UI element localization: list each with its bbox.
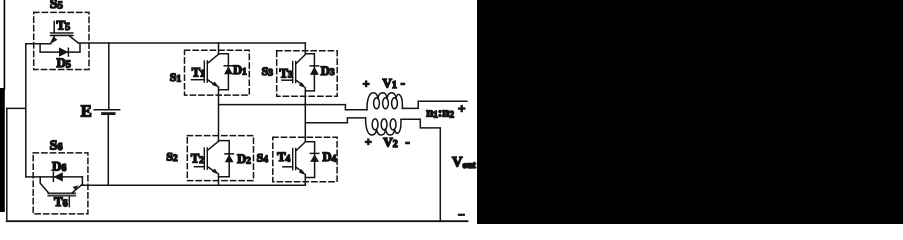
S2 cell box <box>187 136 253 181</box>
battery E <box>81 43 120 185</box>
wire leg1 output <box>219 105 368 110</box>
wire S2 exit <box>218 174 220 185</box>
wire V2 right lead <box>401 119 440 221</box>
svg-text:D5: D5 <box>57 55 71 71</box>
wire top bus <box>78 42 305 44</box>
wire bottom bus <box>82 184 305 186</box>
svg-text:V1: V1 <box>383 76 397 92</box>
svg-text:S6: S6 <box>50 138 63 153</box>
wire leg2 output <box>305 118 365 123</box>
svg-text:T2: T2 <box>191 152 204 166</box>
wire S1 entry <box>218 43 220 54</box>
svg-text:-: - <box>405 134 409 149</box>
svg-text:T3: T3 <box>280 66 293 80</box>
diode D3 <box>305 54 335 91</box>
svg-text:-: - <box>401 75 405 90</box>
svg-text:S5: S5 <box>50 0 63 12</box>
left edge black bar <box>0 88 5 212</box>
diode D4 <box>305 142 336 178</box>
svg-text:–: – <box>458 208 465 220</box>
S6 aux switch box <box>33 153 88 214</box>
diode D1 <box>219 54 248 90</box>
inductor V1 primary winding <box>367 93 402 110</box>
S4 cell box <box>273 137 337 182</box>
svg-text:D3: D3 <box>321 64 335 78</box>
S1 cell box <box>185 50 250 95</box>
svg-text:T4: T4 <box>277 150 290 164</box>
svg-text:n1:n2: n1:n2 <box>426 105 454 120</box>
wire S6 right drop <box>81 177 83 185</box>
svg-text:+: + <box>363 77 370 91</box>
svg-text:V2: V2 <box>383 134 397 150</box>
diode D2 <box>219 141 252 177</box>
transistor T6 <box>40 177 82 210</box>
wire bottom output <box>7 220 468 222</box>
diode D5 <box>40 43 80 70</box>
svg-text:S2: S2 <box>166 150 178 164</box>
svg-text:T1: T1 <box>192 65 205 79</box>
transistor T3 <box>280 55 307 89</box>
S5 aux switch box <box>34 12 89 69</box>
svg-text:S3: S3 <box>262 64 274 78</box>
S3 cell box <box>277 51 338 97</box>
svg-text:+: + <box>365 135 372 149</box>
svg-text:+: + <box>458 101 465 116</box>
transistor T2 <box>191 141 220 175</box>
wire S3 exit / leg2 mid <box>304 88 306 142</box>
transistor T4 <box>277 142 306 176</box>
svg-text:Vout: Vout <box>452 154 477 171</box>
transistor T5 <box>50 18 78 45</box>
black panel right <box>477 0 903 224</box>
wire S4 exit <box>304 175 306 186</box>
wire left vertical <box>25 44 27 177</box>
inductor V2 secondary winding <box>366 118 401 135</box>
wire S1 exit / leg1 mid <box>218 87 220 141</box>
svg-text:D1: D1 <box>233 63 247 77</box>
svg-text:S4: S4 <box>257 151 269 165</box>
wire S5 left lead <box>26 43 51 45</box>
node junction stub left <box>7 107 26 109</box>
wire left outer vertical <box>6 108 8 221</box>
diode D6 <box>26 159 83 182</box>
svg-text:D6: D6 <box>52 159 66 175</box>
svg-text:T5: T5 <box>57 18 71 34</box>
transistor T1 <box>192 54 220 88</box>
svg-text:D4: D4 <box>323 150 337 164</box>
svg-text:E: E <box>81 101 92 120</box>
wire S3 entry <box>304 43 306 54</box>
wire V1 right lead <box>402 101 467 108</box>
svg-text:D2: D2 <box>237 152 251 166</box>
left edge thin black line <box>4 0 6 90</box>
svg-text:S1: S1 <box>170 70 182 84</box>
